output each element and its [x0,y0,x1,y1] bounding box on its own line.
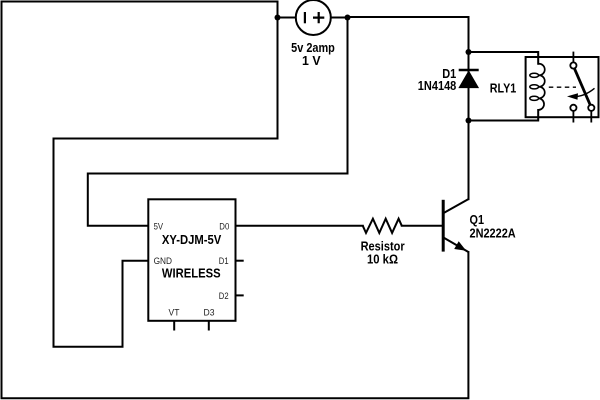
svg-text:Q1: Q1 [470,213,485,227]
relay RLY1 body box [526,57,599,117]
svg-text:WIRELESS: WIRELESS [162,267,221,281]
svg-text:2N2222A: 2N2222A [470,227,516,241]
svg-text:1N4148: 1N4148 [418,79,457,93]
relay RLY1 coil loop 2 [530,85,539,89]
relay RLY1 switch top pin [572,52,574,63]
svg-text:XY-DJM-5V: XY-DJM-5V [162,233,222,247]
relay RLY1 dashed link [549,86,576,88]
IC U1 pin D1 stub [236,260,244,262]
svg-text:D1: D1 [219,256,229,266]
wire resistor to base [402,225,443,227]
transistor Q1 base bar [442,200,445,252]
wire D0 to resistor [236,225,363,227]
voltage source V1 minus bar [304,12,306,23]
wire source minus branch down to GND loop [54,2,278,347]
IC U1 pin VT stub [173,321,175,331]
diode D1 cathode bar [459,69,479,71]
relay RLY1 switch bottom right pin [590,111,592,123]
wire 5V supply (source plus down to 5V pin) [88,17,348,226]
wire relay coil bottom terminal [469,110,539,121]
wire source left stub [278,17,296,19]
node junction dot relay bottom [466,118,472,124]
resistor R1 zigzag [363,219,402,233]
svg-text:10 kΩ: 10 kΩ [367,253,398,267]
relay RLY1 switch bottom right contact [588,105,594,111]
wire outer loop (source minus, top/left/bottom to emitter) [2,2,469,399]
transistor Q1 emitter arrow [454,241,466,251]
IC U1 pin D3 stub [208,321,210,331]
wire diode/collector vertical [468,52,470,199]
relay RLY1 coil [538,64,545,110]
voltage source V1 plus sign [313,12,324,23]
relay RLY1 coil loop 1 [530,73,539,77]
relay RLY1 switch blade [574,68,590,105]
wire relay coil top terminal [469,52,539,64]
transistor Q1 emitter lead [443,237,468,252]
IC U1 XY-DJM-5V body box [148,199,235,320]
svg-text:D2: D2 [219,291,229,301]
svg-text:D0: D0 [219,221,229,231]
wire source plus to relay/diode top [348,17,469,52]
svg-text:1 V: 1 V [302,54,321,68]
relay RLY1 coil loop 3 [530,96,539,100]
svg-text:Resistor: Resistor [361,239,405,253]
svg-text:VT: VT [169,307,180,317]
svg-text:5v 2amp: 5v 2amp [291,41,335,55]
node junction dot source minus [275,15,281,21]
diode D1 triangle [459,71,478,87]
svg-text:RLY1: RLY1 [490,81,517,95]
wire source right stub [331,17,348,19]
relay RLY1 actuate arrow [571,88,595,96]
svg-text:GND: GND [154,256,173,266]
node junction dot relay top [466,49,472,55]
relay RLY1 switch bottom left pin [572,111,574,123]
voltage source V1 circle [296,0,331,35]
transistor Q1 collector lead [443,199,468,213]
node junction dot source plus [345,15,351,21]
svg-text:D3: D3 [204,307,215,317]
relay RLY1 switch bottom left contact [570,105,576,111]
relay RLY1 switch top contact [570,62,576,68]
svg-text:5V: 5V [154,221,164,231]
IC U1 pin D2 stub [236,294,244,296]
